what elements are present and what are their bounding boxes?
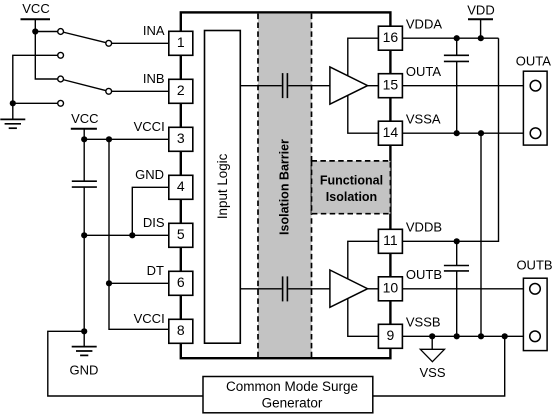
wire VSSB from pin 9 to connector (402, 335, 530, 337)
connector OUTB body (523, 278, 547, 350)
VDD supply symbol (468, 18, 493, 20)
wire buffer B output to pin 10 (368, 288, 379, 290)
wire VDD stem (480, 19, 482, 38)
junction VCCI at VCC stem (81, 136, 87, 142)
wire DIS rail to pin 5 (84, 234, 169, 236)
common mode surge generator box (203, 377, 373, 413)
svg-text:GND: GND (135, 167, 164, 182)
svg-text:VSSB: VSSB (406, 314, 441, 329)
capacitor C1 (VCCI bypass) (72, 181, 97, 187)
wire VDD feed down to VDDB (402, 38, 498, 241)
svg-text:1: 1 (177, 34, 185, 50)
svg-text:15: 15 (383, 77, 399, 93)
svg-text:5: 5 (177, 226, 185, 242)
wire VSSA to VSSB link (480, 133, 482, 336)
junction VSSB at VSS link (478, 333, 484, 339)
wire switch B GND throw to ground rail (13, 102, 58, 104)
op-amp buffer A (330, 67, 368, 104)
junction VSSB at bypass cap (454, 333, 460, 339)
op-amp buffer B (330, 270, 368, 307)
svg-text:VCC: VCC (71, 111, 98, 126)
switch SWB arm (61, 79, 109, 91)
wire OUTA from pin 15 to connector (402, 85, 530, 87)
svg-text:VSSA: VSSA (406, 111, 441, 126)
wire bypass cap B bottom lead to VSSB (456, 271, 458, 336)
connector OUTB pin 2 circle (530, 331, 541, 342)
svg-text:DT: DT (147, 263, 164, 278)
svg-text:16: 16 (383, 29, 399, 45)
wire VSSA from pin 14 to connector (402, 132, 530, 134)
pin 16 box (378, 26, 402, 50)
svg-text:OUTA: OUTA (406, 64, 441, 79)
junction VSSB at surge feed (502, 333, 508, 339)
VCC supply symbol (top left) (21, 18, 51, 20)
capacitor isolation channel A (283, 73, 288, 98)
svg-text:VDDB: VDDB (406, 219, 442, 234)
svg-text:OUTB: OUTB (406, 267, 442, 282)
pin 1 box (169, 31, 193, 55)
svg-text:Input Logic: Input Logic (215, 153, 230, 219)
svg-text:8: 8 (177, 322, 185, 338)
svg-text:Isolation: Isolation (326, 190, 377, 204)
wire switch A GND throw to ground rail (13, 55, 58, 119)
svg-text:4: 4 (177, 178, 185, 194)
junction GND rail at bottom horizontal (81, 328, 87, 334)
switch SWA throw contact (GND) (58, 52, 64, 58)
junction VCC branch (32, 28, 38, 34)
junction VDDB at bypass cap (454, 238, 460, 244)
svg-text:VSS: VSS (419, 365, 445, 380)
connector OUTB pin 1 circle (530, 284, 541, 295)
IC body U1 outline (181, 12, 391, 358)
svg-text:VCCI: VCCI (134, 311, 165, 326)
wire iso cap to buffer A (288, 85, 330, 87)
pin 3 box (169, 127, 193, 151)
VCC supply symbol (left, for VCCI) (71, 128, 97, 130)
wire DT to pin 6 (109, 282, 169, 284)
svg-text:Generator: Generator (262, 396, 323, 411)
svg-text:VDD: VDD (467, 2, 494, 17)
switch SWA throw contact (VCC) (58, 29, 64, 35)
capacitor isolation channel B (283, 276, 288, 301)
wire VCC stem to VCCI net (83, 129, 85, 140)
switch SWA arm (61, 32, 109, 44)
connector OUTA body (523, 71, 547, 145)
pin 4 box (169, 175, 193, 199)
junction VSSB at VSS symbol (429, 333, 435, 339)
svg-text:3: 3 (177, 130, 185, 146)
svg-text:11: 11 (383, 232, 398, 248)
wire iso cap to buffer B (288, 288, 330, 290)
pin 2 box (169, 79, 193, 103)
svg-text:Common Mode Surge: Common Mode Surge (226, 379, 358, 394)
svg-text:GND: GND (70, 363, 99, 378)
wire VCCI to pin 3 (84, 138, 169, 140)
wire bypass cap A top lead (456, 38, 458, 55)
wire VCC branch to switch A throw (35, 31, 58, 33)
wire INA to pin 1 (112, 42, 169, 44)
pin 6 box (169, 271, 193, 295)
junction DT branch (106, 280, 112, 286)
wire VDDA from pin 16 to VDD feed corner (402, 37, 498, 39)
connector OUTA pin 2 circle (530, 128, 541, 139)
wire cap bottom down to DIS rail and GND (83, 187, 85, 331)
wire bypass cap A bottom lead to VSSA (456, 61, 458, 133)
svg-text:Functional: Functional (320, 174, 383, 188)
junction DIS at pin4 branch (129, 232, 135, 238)
pin 8 box (169, 319, 193, 343)
pin 5 box (169, 223, 193, 247)
wire VCC rail down to bypass cap (83, 139, 85, 181)
junction DIS at GND rail (81, 232, 87, 238)
wire VCC stem down to switch B throw (35, 19, 58, 79)
ground symbol (switch return) (0, 119, 25, 128)
pin 9 box (378, 324, 402, 348)
svg-text:10: 10 (383, 280, 399, 296)
svg-text:INB: INB (143, 71, 165, 86)
functional isolation shaded box (312, 161, 391, 214)
svg-text:VCCI: VCCI (134, 119, 165, 134)
switch SWB throw contact (GND) (58, 100, 64, 106)
junction VSSA at VSS link (478, 130, 484, 136)
junction VCCI branch to pin 8 (106, 136, 112, 142)
wire OUTB from pin 10 to connector (402, 288, 530, 290)
svg-text:9: 9 (387, 327, 395, 343)
switch SWB throw contact (VCC) (58, 76, 64, 82)
svg-text:VCC: VCC (22, 1, 49, 16)
pin 15 box (378, 74, 402, 98)
isolation barrier left dashed border (257, 14, 259, 357)
wire bottom-left to surge generator loop (48, 331, 203, 396)
junction VDDA at bypass cap (454, 35, 460, 41)
wire bypass cap B top lead (456, 241, 458, 265)
svg-text:Isolation Barrier: Isolation Barrier (278, 139, 292, 235)
ground symbol GND (primary side) (72, 347, 97, 356)
svg-text:VDDA: VDDA (406, 16, 442, 31)
pin 10 box (378, 277, 402, 301)
junction VDDA at VDD stem (478, 35, 484, 41)
connector OUTA pin 1 circle (530, 80, 541, 91)
svg-text:OUTB: OUTB (516, 257, 552, 272)
svg-text:DIS: DIS (143, 215, 165, 230)
junction ground rail (10, 100, 16, 106)
capacitor VDDB bypass (444, 266, 469, 271)
svg-text:2: 2 (177, 82, 185, 98)
wire GND stub (83, 331, 85, 346)
svg-text:INA: INA (143, 23, 165, 38)
capacitor VDDA bypass (444, 55, 469, 61)
wire channel A from input logic to iso cap (240, 85, 281, 87)
pin 11 box (378, 229, 402, 253)
isolation barrier right dashed border (311, 14, 313, 357)
wire VCCI rail down to DT and pin 8 (109, 139, 169, 329)
isolation barrier shaded region (258, 14, 312, 357)
wire INB to pin 2 (112, 90, 169, 92)
wire channel B from input logic to iso cap (240, 288, 281, 290)
wire surge feed down and left to generator (373, 336, 505, 396)
input logic block (205, 31, 241, 344)
wire driver A supply vertical (pin16 to pin14) (348, 38, 379, 133)
wire driver B supply vertical (pin11 to pin9) (348, 241, 379, 336)
switch SWA pole contact (106, 40, 112, 46)
pin 14 box (378, 121, 402, 145)
switch SWB pole contact (106, 88, 112, 94)
VSS supply symbol (open triangle) (420, 349, 444, 361)
svg-text:OUTA: OUTA (516, 53, 551, 68)
wire VSS stub (431, 336, 433, 349)
wire buffer A output to pin 15 (368, 85, 379, 87)
wire GND pin 4 to DIS rail (132, 187, 169, 235)
junction VSSA at bypass cap (454, 130, 460, 136)
svg-text:14: 14 (383, 124, 399, 140)
svg-text:6: 6 (177, 274, 185, 290)
